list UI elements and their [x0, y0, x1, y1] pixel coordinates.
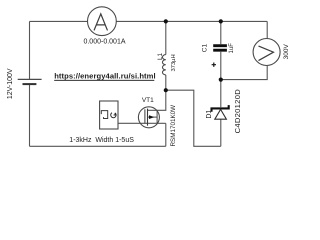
- transistor arrow: [149, 115, 154, 119]
- wire D1 anode lead down: [220, 119, 222, 147]
- svg-text:C1: C1: [201, 44, 208, 53]
- wire bottom rail: [30, 145, 166, 147]
- wire L1 bottom lead: [165, 75, 167, 90]
- link underline: [54, 79, 154, 81]
- wire battery bottom lead: [29, 85, 31, 147]
- transistor channel bar: [147, 109, 149, 126]
- transistor right vertical: [156, 110, 158, 123]
- wire gate and source stub: [118, 122, 166, 124]
- ammeter PA1 circle: [88, 7, 117, 36]
- svg-text:C4D20120D: C4D20120D: [233, 89, 242, 134]
- capacitor C1 plate bottom: [213, 49, 227, 52]
- generator letter G: [111, 113, 116, 118]
- wire top rail left (battery to ammeter): [30, 20, 88, 22]
- svg-text:RSM1701K0W: RSM1701K0W: [170, 105, 177, 147]
- svg-text:373µH: 373µH: [171, 54, 177, 71]
- wire C1 bottom lead to D1 cathode: [220, 52, 222, 107]
- svg-text:D1: D1: [206, 110, 213, 119]
- diode D1 schottky cathode bar: [212, 105, 229, 112]
- svg-text:1-3kHz Width 1-5uS: 1-3kHz Width 1-5uS: [69, 137, 134, 144]
- ammeter letter A: [94, 14, 107, 30]
- svg-text:0.000-0.001A: 0.000-0.001A: [83, 39, 125, 46]
- voltmeter PV1 circle: [253, 39, 280, 66]
- transistor VT1 circle: [138, 107, 159, 128]
- svg-text:VT1: VT1: [142, 97, 154, 104]
- capacitor C1 plate top: [213, 44, 227, 47]
- wire top rail right (ammeter to top-right corner): [116, 20, 267, 22]
- wire D1 loop to drain node: [166, 90, 221, 146]
- wire voltmeter bottom to C1 junction: [221, 66, 267, 80]
- node junction drain: [164, 88, 168, 92]
- node junction C1 bottom: [219, 78, 223, 82]
- svg-text:L1: L1: [157, 53, 164, 61]
- transistor middle stub: [148, 116, 158, 118]
- wire drain connection: [148, 90, 166, 110]
- wire C1 top lead: [220, 21, 222, 44]
- svg-text:300V: 300V: [283, 44, 290, 60]
- voltmeter letter V rotated: [259, 46, 274, 60]
- svg-text:https://energy4all.ru/si.html: https://energy4all.ru/si.html: [54, 72, 155, 81]
- generator G1 box: [100, 101, 118, 129]
- node junction top L1: [164, 19, 168, 23]
- svg-text:12V-100V: 12V-100V: [7, 68, 14, 99]
- wire battery top lead: [29, 21, 31, 79]
- svg-text:1uF: 1uF: [229, 43, 235, 54]
- transistor gate bar: [144, 109, 146, 123]
- inductor L1 coil: [162, 55, 165, 75]
- diode D1 triangle: [215, 109, 227, 119]
- battery plate short: [23, 83, 37, 85]
- generator pulse waveform: [101, 111, 107, 119]
- battery GB1 plate long: [18, 78, 42, 80]
- wire L1 top lead: [165, 21, 167, 54]
- capacitor polarity plus: [212, 63, 216, 67]
- wire source down to rail: [165, 123, 167, 146]
- node junction top C1: [219, 19, 223, 23]
- wire voltmeter top lead: [266, 21, 268, 38]
